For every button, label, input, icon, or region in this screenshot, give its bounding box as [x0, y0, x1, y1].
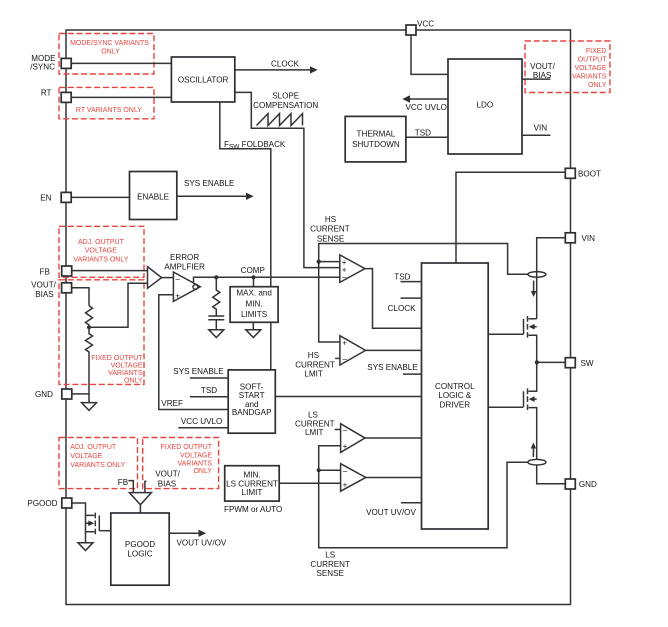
svg-text:BANDGAP: BANDGAP	[232, 408, 272, 417]
wire divider tap to buffer lower input	[89, 283, 148, 327]
pin SW	[565, 358, 575, 368]
pin GND (right)	[565, 479, 575, 489]
wire MODE/SYNC to oscillator	[72, 62, 172, 64]
IC boundary	[66, 30, 571, 605]
wire HS gate drive	[488, 333, 523, 335]
svg-text:START: START	[239, 391, 265, 400]
svg-text:TSD: TSD	[201, 386, 217, 395]
svg-text:ONLY: ONLY	[588, 82, 607, 89]
svg-text:+: +	[175, 292, 180, 301]
comparator LS current limit	[341, 424, 365, 453]
wire min LS comparator output to control logic	[366, 476, 422, 478]
svg-text:GND: GND	[579, 480, 597, 489]
svg-text:FIXED OUTPUT: FIXED OUTPUT	[161, 444, 213, 451]
ground symbol (compensation)	[209, 330, 224, 338]
junction dot divider tap	[87, 325, 91, 329]
svg-text:COMP: COMP	[241, 266, 265, 275]
svg-text:CLOCK: CLOCK	[271, 60, 299, 69]
node SW	[535, 360, 539, 364]
wire HS current limit output to control logic	[366, 349, 422, 351]
pin MODE/SYNC	[61, 58, 71, 68]
svg-text:–: –	[342, 272, 347, 281]
red dashed box FIXED OUTPUT variants (mid left)	[59, 280, 144, 385]
wire error amp + input to VREF	[159, 295, 228, 410]
wire EN to enable block	[72, 196, 130, 198]
svg-text:CURRENT: CURRENT	[295, 361, 335, 370]
LDO block	[448, 59, 522, 154]
svg-text:ADJ. OUTPUT: ADJ. OUTPUT	[70, 444, 117, 451]
wire soft-start to control logic	[275, 396, 421, 398]
ground symbol (GND pin)	[82, 403, 97, 411]
wire CLOCK output arrow	[235, 69, 313, 71]
svg-text:+: +	[342, 339, 347, 348]
svg-text:VOLTAGE: VOLTAGE	[574, 65, 606, 72]
wire TSD stub to soft-start	[190, 396, 228, 398]
svg-text:FIXED: FIXED	[586, 48, 607, 55]
wire LS sense junction to comparator2 minus	[319, 469, 341, 471]
svg-text:SYS ENABLE: SYS ENABLE	[184, 179, 235, 188]
svg-text:–: –	[343, 426, 348, 435]
svg-text:MAX. and: MAX. and	[236, 289, 272, 298]
enable block	[130, 172, 177, 220]
wire SYS ENABLE stub to control	[403, 373, 422, 375]
svg-text:BOOT: BOOT	[578, 170, 601, 179]
comparator min LS current limit	[341, 464, 366, 492]
svg-text:LS: LS	[325, 551, 336, 560]
wire VOUT/BIAS stub to pgood buffer	[145, 481, 147, 492]
svg-text:VARIANTS ONLY: VARIANTS ONLY	[73, 256, 128, 263]
compensation resistor	[213, 277, 220, 316]
svg-text:MIN.: MIN.	[246, 299, 263, 308]
wire buffer to error amplifier	[162, 277, 174, 279]
svg-text:OUTPUT: OUTPUT	[578, 57, 608, 64]
wire PGOOD pin to FET drain	[72, 503, 86, 515]
pin EN	[61, 192, 71, 202]
svg-text:COMPENSATION: COMPENSATION	[253, 101, 318, 110]
transistor HS MOSFET	[523, 319, 525, 334]
pin PGOOD	[62, 498, 72, 508]
svg-text:LMIT: LMIT	[305, 428, 323, 437]
red dashed box ADJ OUTPUT variants (bottom)	[59, 438, 138, 489]
svg-text:FB: FB	[40, 267, 50, 276]
svg-text:MODE/SYNC VARIANTS: MODE/SYNC VARIANTS	[70, 40, 149, 47]
svg-text:VOLTAGE: VOLTAGE	[180, 452, 212, 459]
wire SYS ENABLE arrow	[177, 195, 249, 197]
svg-text:CONTROL: CONTROL	[435, 382, 475, 391]
svg-text:CURRENT: CURRENT	[310, 560, 350, 569]
compensation capacitor	[208, 316, 224, 320]
svg-text:VCC UVLO: VCC UVLO	[181, 417, 222, 426]
transistor PGOOD open-drain FET	[98, 516, 100, 531]
output circle at error amplifier apex	[193, 285, 198, 290]
wire PGOOD FET gate to pgood logic	[99, 530, 111, 532]
svg-text:PGOOD: PGOOD	[27, 499, 57, 508]
svg-text:SENSE: SENSE	[316, 569, 344, 578]
soft-start and bandgap block	[228, 370, 275, 433]
wire VCC pin to LDO	[411, 35, 448, 74]
wire VCC UVLO arrow from LDO	[407, 98, 448, 100]
wire RT to oscillator	[72, 96, 172, 98]
svg-text:PGOOD: PGOOD	[125, 540, 155, 549]
wire LS gate drive	[488, 406, 523, 408]
svg-text:BIAS: BIAS	[158, 480, 177, 489]
wire TSD stub to control	[401, 281, 422, 283]
ground symbol (MAX MIN limits)	[246, 330, 261, 338]
thermal shutdown block	[345, 116, 406, 161]
wire LS current sense tap	[319, 446, 528, 548]
svg-text:BIAS: BIAS	[533, 71, 552, 80]
wire LDO VOUT/BIAS output	[522, 78, 550, 80]
MAX and MIN limits block	[253, 277, 255, 286]
svg-text:LIMIT: LIMIT	[242, 488, 263, 497]
svg-text:ONLY: ONLY	[101, 49, 120, 56]
wire HS sense junction to comparator	[319, 261, 340, 263]
wire VIN pin to HS FET	[537, 238, 566, 319]
wire LS current limit - stub	[335, 429, 341, 431]
svg-text:VARIANTS ONLY: VARIANTS ONLY	[70, 462, 125, 469]
svg-text:VCC: VCC	[417, 20, 434, 29]
svg-text:LOGIC: LOGIC	[127, 550, 152, 559]
oscillator block	[171, 57, 234, 102]
svg-text:VOLTAGE: VOLTAGE	[85, 248, 117, 255]
svg-text:GND: GND	[35, 390, 53, 399]
resistor divider bottom R	[86, 327, 93, 394]
ground symbol (PGOOD FET)	[78, 543, 93, 551]
svg-text:EN: EN	[40, 193, 51, 202]
svg-text:OSCILLATOR: OSCILLATOR	[178, 76, 229, 85]
wire min LS block output to comparator	[279, 482, 340, 484]
wire FB stub to pgood buffer	[128, 481, 133, 493]
svg-text:VOLTAGE: VOLTAGE	[111, 362, 143, 369]
svg-text:–: –	[343, 354, 348, 363]
svg-text:TSD: TSD	[394, 272, 410, 281]
svg-text:VCC UVLO: VCC UVLO	[406, 103, 447, 112]
svg-text:LIMITS: LIMITS	[241, 310, 268, 319]
svg-text:+: +	[343, 442, 348, 451]
wire VOUT UV/OV stub to control	[401, 502, 422, 504]
arrow current direction HS	[533, 281, 535, 292]
wire BOOT to control logic	[456, 172, 565, 263]
wire PGOOD FET source to ground	[85, 531, 87, 542]
wire SYS ENABLE stub to soft-start	[190, 377, 228, 379]
svg-text:SW: SW	[581, 359, 594, 368]
pin BOOT	[565, 168, 575, 178]
node COMP output of error amplifier	[194, 277, 340, 283]
pin VIN	[565, 233, 575, 243]
resistor divider top R	[86, 306, 93, 328]
wire VOUT UV/OV arrow from pgood logic	[169, 532, 201, 534]
svg-text:ONLY: ONLY	[124, 377, 143, 384]
pin RT	[61, 92, 71, 102]
svg-text:VOUT UV/OV: VOUT UV/OV	[366, 508, 416, 517]
svg-text:LMIT: LMIT	[304, 370, 322, 379]
svg-text:VARIANTS: VARIANTS	[108, 370, 143, 377]
wire LS FET to GND pin	[537, 465, 566, 484]
min LS current limit block	[225, 466, 280, 501]
slope compensation sawtooth waveform	[257, 114, 303, 126]
svg-text:ERROR: ERROR	[170, 253, 199, 262]
svg-text:CURRENT: CURRENT	[310, 224, 350, 233]
wire LDO VIN input	[522, 134, 550, 136]
svg-text:FB: FB	[118, 478, 128, 487]
wire HS current sense tap	[319, 244, 528, 343]
red dashed box MODE/SYNC variants	[59, 34, 154, 75]
svg-text:AMPLFIER: AMPLFIER	[164, 263, 205, 272]
wire TSD thermal shutdown to LDO	[406, 136, 448, 138]
wire GND pin to ground	[72, 394, 89, 403]
buffer triangle to pgood logic	[129, 493, 151, 505]
pin VOUT/BIAS	[62, 283, 72, 293]
wire slope compensation: oscillator to HS sense comparator input	[235, 92, 340, 267]
red dashed box FIXED OUTPUT top right	[525, 41, 610, 93]
svg-text:FIXED OUTPUT: FIXED OUTPUT	[91, 355, 143, 362]
svg-text:THERMAL: THERMAL	[357, 130, 396, 139]
wire CLOCK stub to control	[401, 297, 422, 299]
svg-text:HS: HS	[308, 351, 320, 360]
wire VOUT/BIAS pin to divider	[72, 288, 89, 306]
svg-text:CLOCK: CLOCK	[388, 304, 416, 313]
svg-text:SYS ENABLE: SYS ENABLE	[173, 367, 224, 376]
svg-text:ONLY: ONLY	[193, 468, 212, 475]
wire LS current limit output to control logic	[365, 437, 422, 439]
junction dot comp RC	[214, 275, 218, 279]
arrow current direction LS	[532, 448, 534, 457]
svg-text:VOUT/: VOUT/	[31, 281, 56, 290]
wire HS current limit - stub	[335, 357, 340, 359]
svg-text:VOUT/: VOUT/	[155, 470, 180, 479]
svg-text:VOLTAGE: VOLTAGE	[70, 453, 102, 460]
svg-text:+: +	[343, 480, 348, 489]
svg-text:VARIANTS: VARIANTS	[572, 74, 607, 81]
svg-text:SHUTDOWN: SHUTDOWN	[352, 140, 400, 149]
svg-text:VIN: VIN	[582, 234, 596, 243]
svg-text:SOFT-: SOFT-	[240, 382, 264, 391]
svg-text:VREF: VREF	[161, 399, 183, 408]
pgood logic block	[111, 513, 169, 585]
svg-text:SLOPE: SLOPE	[272, 92, 300, 101]
svg-text:–: –	[343, 466, 348, 475]
svg-text:RT VARIANTS ONLY: RT VARIANTS ONLY	[76, 107, 142, 114]
junction dot HS sense	[317, 260, 321, 264]
svg-text:VARIANTS: VARIANTS	[178, 460, 213, 467]
svg-text:SYS ENABLE: SYS ENABLE	[367, 363, 418, 372]
wire buffer to pgood logic block	[139, 505, 141, 513]
svg-text:VOUT/: VOUT/	[530, 62, 555, 71]
wire FB to buffer	[72, 270, 148, 272]
current sense ellipse LS	[528, 459, 546, 465]
svg-text:VIN: VIN	[534, 124, 548, 133]
error amplifier input buffer	[148, 267, 162, 289]
svg-text:SENSE: SENSE	[317, 234, 345, 243]
wire FSW foldback: oscillator to soft-start block	[220, 102, 271, 370]
junction dot LS sense	[317, 468, 321, 472]
op-amp error amplifier	[173, 272, 200, 301]
svg-text:FPWM or AUTO: FPWM or AUTO	[224, 505, 282, 514]
wire SW node to SW pin	[537, 361, 565, 363]
wire MAX MIN limits to ground	[252, 322, 254, 329]
svg-text:LDO: LDO	[476, 100, 493, 109]
svg-text:TSD: TSD	[415, 128, 431, 137]
svg-text:BIAS: BIAS	[35, 290, 54, 299]
current sense ellipse HS	[528, 272, 546, 278]
svg-text:LS: LS	[308, 410, 319, 419]
wire VCC UVLO stub to soft-start	[178, 427, 228, 429]
pin GND	[62, 389, 72, 399]
svg-text:ADJ. OUTPUT: ADJ. OUTPUT	[78, 239, 125, 246]
junction dot MAX MIN limits	[251, 275, 255, 279]
red dashed box FIXED OUTPUT variants (bottom)	[143, 438, 219, 489]
transistor LS MOSFET	[523, 391, 525, 406]
control logic and driver block	[422, 263, 489, 529]
svg-text:DRIVER: DRIVER	[440, 400, 471, 409]
comparator HS current sense	[340, 255, 365, 283]
svg-text:RT: RT	[41, 88, 52, 97]
pin FB	[62, 266, 72, 276]
svg-text:/SYNC: /SYNC	[30, 63, 55, 72]
svg-text:LOGIC &: LOGIC &	[438, 391, 471, 400]
svg-text:ENABLE: ENABLE	[137, 193, 170, 202]
wire HS sense comparator output to control logic	[365, 269, 422, 329]
red dashed box RT variants	[59, 87, 154, 118]
svg-text:MIN.: MIN.	[243, 471, 260, 480]
red dashed box ADJ OUTPUT variants (mid left)	[59, 226, 144, 277]
comparator HS current limit	[340, 336, 366, 365]
pin VCC	[406, 25, 416, 35]
svg-text:VOUT UV/OV: VOUT UV/OV	[177, 538, 227, 547]
svg-text:HS: HS	[325, 215, 337, 224]
svg-text:–: –	[176, 274, 181, 283]
